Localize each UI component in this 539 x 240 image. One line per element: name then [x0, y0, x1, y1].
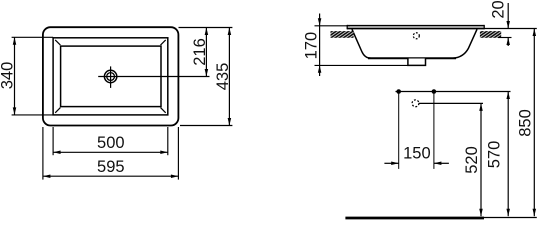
svg-text:595: 595	[97, 158, 125, 176]
svg-text:520: 520	[463, 146, 481, 174]
svg-text:216: 216	[191, 38, 209, 66]
svg-text:500: 500	[97, 134, 125, 152]
svg-text:850: 850	[516, 109, 534, 137]
svg-text:570: 570	[485, 141, 503, 169]
svg-text:435: 435	[214, 63, 232, 91]
svg-text:340: 340	[0, 62, 16, 90]
svg-text:150: 150	[403, 144, 431, 162]
svg-text:170: 170	[302, 32, 320, 60]
svg-text:20: 20	[489, 0, 507, 18]
